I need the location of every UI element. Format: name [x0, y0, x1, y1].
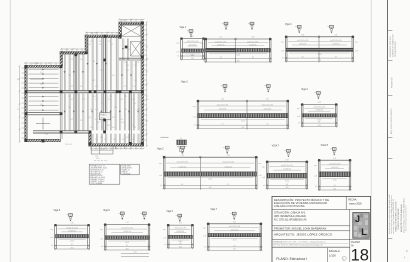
- svg-text:CTE DB-SE: CTE DB-SE: [122, 173, 131, 175]
- svg-text:4o12(2.35+0.90): 4o12(2.35+0.90): [329, 163, 341, 165]
- svg-text:Viga 3: Viga 3: [285, 24, 292, 26]
- svg-text:V-25: V-25: [137, 109, 140, 111]
- svg-text:18: 18: [351, 247, 369, 262]
- svg-text:56: 56: [302, 57, 304, 59]
- svg-text:V-25: V-25: [90, 127, 93, 129]
- svg-text:2.20: 2.20: [333, 158, 336, 160]
- svg-text:79: 79: [227, 184, 229, 186]
- PLANO Nº label: [351, 240, 360, 248]
- svg-text:4o12(2.35+0.90): 4o12(2.35+0.90): [121, 228, 133, 230]
- svg-text:V-25: V-25: [101, 103, 104, 105]
- svg-text:4o12(2.35+0.90): 4o12(2.35+0.90): [66, 227, 78, 229]
- svg-text:64: 64: [266, 124, 268, 126]
- svg-text:2o10(4.50): 2o10(4.50): [332, 44, 340, 46]
- svg-text:marzo 2020: marzo 2020: [349, 203, 362, 206]
- svg-text:V-25: V-25: [68, 107, 71, 109]
- svg-text:14: 14: [317, 93, 319, 95]
- svg-text:14: 14: [333, 149, 335, 151]
- svg-text:COLEGIO OFICIAL DE: COLEGIO OFICIAL DE: [397, 208, 400, 230]
- svg-text:Viga 6: Viga 6: [166, 211, 173, 213]
- svg-text:V-25: V-25: [133, 127, 136, 129]
- svg-text:A3: A3: [406, 250, 409, 252]
- svg-text:4.20: 4.20: [96, 158, 99, 160]
- svg-text:V-25: V-25: [99, 41, 102, 43]
- architect J L logo stamp: [353, 213, 369, 239]
- svg-text:2.95: 2.95: [65, 49, 68, 51]
- svg-text:V-25: V-25: [109, 96, 112, 98]
- escala: [329, 249, 346, 260]
- svg-text:EHE-08: EHE-08: [122, 171, 128, 173]
- svg-text:V-25: V-25: [80, 59, 83, 61]
- joists beside stair void: [122, 39, 124, 61]
- svg-text:3.99: 3.99: [227, 155, 230, 157]
- svg-text:2o10: 2o10: [241, 120, 245, 122]
- joists region upper right: [121, 61, 123, 90]
- svg-text:14: 14: [233, 213, 235, 215]
- svg-text:2.58: 2.58: [181, 155, 184, 157]
- svg-text:1/100: 1/100: [329, 253, 336, 257]
- svg-text:4o12(2.35+0.90): 4o12(2.35+0.90): [229, 226, 241, 228]
- svg-text:14: 14: [143, 213, 145, 215]
- svg-text:2o10: 2o10: [125, 242, 129, 244]
- svg-text:V-25: V-25: [70, 119, 73, 121]
- svg-text:e o8: e o8: [203, 236, 206, 238]
- title block: description text: [274, 197, 329, 208]
- wall: top of stair block: [119, 22, 144, 25]
- svg-text:V-25: V-25: [101, 80, 104, 82]
- svg-text:V-25: V-25: [113, 139, 116, 141]
- svg-text:2.52 3.01: 2.52 3.01: [65, 144, 72, 146]
- svg-text:4o12(2.35+0.90): 4o12(2.35+0.90): [262, 105, 274, 107]
- svg-text:V-25: V-25: [97, 122, 100, 124]
- beam line y91 across plan: [26, 90, 144, 92]
- svg-text:e o8: e o8: [50, 237, 53, 239]
- svg-text:FORJ.1: FORJ.1: [101, 115, 107, 117]
- svg-text:INT. EJES 70 cm: INT. EJES 70 cm: [90, 171, 103, 173]
- svg-text:14: 14: [182, 147, 184, 149]
- svg-text:4o12(2.35+0.90): 4o12(2.35+0.90): [176, 162, 188, 164]
- svg-text:ARQUITECTO: JESÚS LÓPEZ OROZCO: ARQUITECTO: JESÚS LÓPEZ OROZCO: [274, 232, 333, 237]
- svg-text:V-25: V-25: [112, 117, 115, 119]
- svg-text:2.83: 2.83: [285, 159, 288, 161]
- svg-text:4o12(2.35+0.90): 4o12(2.35+0.90): [313, 107, 325, 109]
- beam detail VIGA 6 (long, row 3): [157, 146, 262, 190]
- svg-text:4o12(2.35+0.90): 4o12(2.35+0.90): [175, 228, 187, 230]
- porch outline bottom: [91, 146, 113, 154]
- svg-text:ARQ. JESÚS LÓPEZ OROZCO: ARQ. JESÚS LÓPEZ OROZCO: [390, 108, 393, 134]
- svg-text:V-25: V-25: [108, 99, 111, 101]
- svg-text:2.80: 2.80: [122, 20, 125, 22]
- svg-text:V-25: V-25: [128, 49, 131, 51]
- svg-text:V-25: V-25: [110, 44, 113, 46]
- svg-text:V-25: V-25: [45, 134, 48, 136]
- svg-text:FECHA:: FECHA:: [348, 199, 357, 202]
- joists region upper middle: [87, 38, 89, 90]
- svg-text:e o8: e o8: [281, 50, 284, 52]
- svg-text:2o10(4.50): 2o10(4.50): [249, 44, 257, 46]
- svg-text:3.76: 3.76: [233, 221, 236, 223]
- columns (filled squares): [25, 90, 28, 93]
- joists region mid full: [64, 93, 66, 130]
- svg-text:V-25: V-25: [136, 62, 139, 64]
- wall: right perimeter: [141, 22, 144, 146]
- svg-text:4o12(2.35+0.90): 4o12(2.35+0.90): [330, 40, 342, 42]
- svg-text:Viga 8: Viga 8: [54, 210, 61, 212]
- svg-text:V-25: V-25: [101, 127, 104, 129]
- sheet outer right frame line: [387, 0, 389, 262]
- svg-text:14: 14: [287, 151, 289, 153]
- svg-text:e o8: e o8: [262, 177, 265, 179]
- svg-text:53: 53: [220, 57, 222, 59]
- svg-text:2.41: 2.41: [334, 34, 337, 36]
- beam detail VIGA 9 (row 4 left): [100, 210, 151, 257]
- svg-text:V-25: V-25: [92, 61, 95, 63]
- svg-text:e o8: e o8: [100, 238, 103, 240]
- svg-text:V-25: V-25: [93, 96, 96, 98]
- svg-text:V-25: V-25: [90, 41, 93, 43]
- svg-text:Viga 4: Viga 4: [301, 89, 308, 91]
- interior wall x116: [115, 36, 117, 91]
- svg-text:1.95: 1.95: [95, 156, 98, 158]
- beam detail VIGA 10 (row 4 middle): [163, 211, 194, 249]
- svg-text:V-25: V-25: [70, 86, 73, 88]
- svg-text:V-25: V-25: [40, 104, 43, 106]
- svg-text:V-25: V-25: [95, 86, 98, 88]
- svg-text:V-25: V-25: [134, 65, 137, 67]
- svg-text:2o10(4.50): 2o10(4.50): [189, 45, 197, 47]
- svg-text:2o10(4.50): 2o10(4.50): [331, 167, 339, 169]
- svg-text:V-25: V-25: [112, 75, 115, 77]
- porch marks right: [116, 145, 125, 147]
- wall: step left x60: [60, 52, 63, 67]
- svg-text:2o10(4.50): 2o10(4.50): [217, 44, 225, 46]
- svg-text:60: 60: [181, 184, 183, 186]
- svg-text:2o10(4.50): 2o10(4.50): [123, 231, 131, 233]
- svg-text:2o10: 2o10: [318, 54, 322, 56]
- svg-text:V-25: V-25: [92, 80, 95, 82]
- svg-text:V-25: V-25: [126, 65, 129, 67]
- svg-text:2o10: 2o10: [208, 179, 212, 181]
- notes box 1: [89, 164, 120, 185]
- svg-text:L: L: [361, 227, 367, 237]
- svg-text:1.70 2.45: 1.70 2.45: [32, 63, 39, 65]
- svg-text:2o10(4.50): 2o10(4.50): [178, 166, 186, 168]
- wall: step top y52: [60, 52, 85, 55]
- svg-text:e o8: e o8: [193, 117, 196, 119]
- svg-text:48: 48: [179, 243, 181, 245]
- svg-text:3.13: 3.13: [126, 222, 129, 224]
- svg-text:Viga 3: Viga 3: [181, 82, 188, 84]
- svg-text:ESCALA:: ESCALA:: [329, 249, 341, 253]
- wall: stair block left: [119, 22, 122, 39]
- svg-text:V-25: V-25: [131, 139, 134, 141]
- svg-text:342: 342: [191, 58, 194, 60]
- svg-text:V-25: V-25: [70, 59, 73, 61]
- svg-text:57: 57: [71, 244, 73, 246]
- svg-text:VISADO ESTATUTARIO 12/05/2020: VISADO ESTATUTARIO 12/05/2020: [395, 202, 398, 232]
- svg-text:V-25: V-25: [132, 99, 135, 101]
- sheet inner right frame line: [370, 0, 372, 262]
- svg-text:2o10(4.50): 2o10(4.50): [224, 166, 232, 168]
- svg-text:V-25: V-25: [134, 80, 137, 82]
- joists left wing lower: [29, 96, 59, 98]
- right margin: registry text top: [390, 34, 397, 57]
- bottom dimension dashes: [94, 160, 108, 162]
- svg-text:e o8: e o8: [258, 175, 261, 177]
- beam detail VIGA 8 (row 4 far left): [50, 210, 90, 250]
- svg-text:14: 14: [267, 86, 269, 88]
- svg-text:V-25: V-25: [107, 125, 110, 127]
- svg-text:V-25: V-25: [68, 75, 71, 77]
- svg-text:2o10(4.50): 2o10(4.50): [315, 110, 323, 112]
- wall: step top y36: [85, 35, 119, 38]
- svg-text:2.34: 2.34: [301, 34, 304, 36]
- svg-text:58: 58: [252, 57, 254, 59]
- svg-text:Viga 5: Viga 5: [103, 210, 110, 212]
- beam detail VIGA 1: [176, 27, 205, 61]
- svg-text:57: 57: [335, 57, 337, 59]
- svg-text:14: 14: [190, 31, 192, 33]
- svg-text:14: 14: [179, 215, 181, 217]
- svg-text:2o10(4.50): 2o10(4.50): [219, 109, 227, 111]
- stair void X upper: [122, 25, 141, 36]
- svg-text:SOBREC. 2 KN/m2: SOBREC. 2 KN/m2: [90, 181, 104, 183]
- svg-text:V-25: V-25: [108, 41, 111, 43]
- svg-text:V-25: V-25: [100, 70, 103, 72]
- notes box 2: [121, 164, 139, 175]
- svg-text:V-25: V-25: [95, 109, 98, 111]
- svg-text:V-25: V-25: [40, 84, 43, 86]
- svg-text:FECHA 12/05/2020: FECHA 12/05/2020: [394, 42, 397, 57]
- svg-text:V-25: V-25: [68, 96, 71, 98]
- svg-text:372: 372: [233, 249, 236, 251]
- svg-text:V-25: V-25: [121, 122, 124, 124]
- beam detail VIGA 8 (row 3 right): [314, 144, 352, 191]
- svg-text:J: J: [355, 214, 360, 224]
- svg-text:V-25: V-25: [120, 119, 123, 121]
- svg-text:V-25: V-25: [88, 44, 91, 46]
- svg-text:e o8: e o8: [200, 51, 203, 53]
- svg-text:V-25: V-25: [80, 120, 83, 122]
- svg-text:5.4: 5.4: [146, 99, 148, 101]
- svg-text:412: 412: [209, 187, 212, 189]
- svg-text:2o10(4.50): 2o10(4.50): [177, 231, 185, 233]
- title block frame: [272, 196, 371, 262]
- svg-text:14: 14: [331, 27, 333, 29]
- svg-text:76: 76: [234, 245, 236, 247]
- interior wall x60: [59, 66, 61, 139]
- svg-text:V-25: V-25: [122, 139, 125, 141]
- svg-text:V-25: V-25: [82, 99, 85, 101]
- svg-text:353: 353: [71, 247, 74, 249]
- plan outer dimension lines: [119, 19, 144, 21]
- svg-text:V-25: V-25: [124, 109, 127, 111]
- right margin segment ticks: [388, 30, 393, 32]
- svg-text:2o10(4.50): 2o10(4.50): [264, 109, 272, 111]
- beam detail VIGA 7 (row 3 middle): [262, 144, 308, 190]
- svg-text:54: 54: [334, 185, 336, 187]
- svg-text:14: 14: [224, 86, 226, 88]
- svg-text:V-25: V-25: [70, 99, 73, 101]
- floor plan: structural slab plan: [17, 19, 148, 161]
- svg-text:2.43: 2.43: [318, 102, 321, 104]
- svg-text:2o10: 2o10: [333, 179, 337, 181]
- svg-text:14: 14: [70, 215, 72, 217]
- svg-text:344: 344: [179, 246, 182, 248]
- svg-text:2o10: 2o10: [285, 181, 289, 183]
- svg-text:V-25: V-25: [133, 103, 136, 105]
- wall: step bottom x88: [89, 133, 92, 144]
- svg-text:25: 25: [180, 138, 182, 140]
- axis cross lower-left room: [36, 123, 50, 125]
- joists region bottom: [91, 134, 93, 144]
- svg-text:e o8: e o8: [176, 51, 179, 53]
- svg-text:V-25: V-25: [40, 72, 43, 74]
- svg-text:V-25: V-25: [88, 117, 91, 119]
- interior beam x130: [129, 93, 131, 144]
- svg-text:2.91: 2.91: [266, 99, 269, 101]
- svg-text:63: 63: [286, 184, 288, 186]
- svg-text:4o12(2.35+0.90): 4o12(2.35+0.90): [187, 41, 199, 43]
- svg-text:2o10: 2o10: [236, 55, 240, 57]
- svg-text:e o8: e o8: [163, 237, 166, 239]
- svg-text:46: 46: [192, 54, 194, 56]
- svg-text:359: 359: [286, 187, 289, 189]
- beam detail VIGA 5 (row 2 right): [297, 89, 338, 128]
- svg-text:2.36: 2.36: [70, 223, 73, 225]
- axis cross left wing: [30, 78, 44, 80]
- svg-text:2.12: 2.12: [219, 37, 222, 39]
- wall: step left x85: [85, 35, 88, 54]
- svg-text:Viga 7: Viga 7: [210, 209, 217, 211]
- svg-text:e o8: e o8: [297, 116, 300, 118]
- svg-text:2o10(4.50): 2o10(4.50): [299, 44, 307, 46]
- sheet left margin line: [9, 0, 11, 262]
- beam line y131 bottom left: [33, 130, 91, 132]
- svg-text:363: 363: [126, 248, 129, 250]
- svg-text:PROMOTOR: PROMOTOR: [391, 77, 393, 88]
- stair void X lower: [131, 42, 141, 57]
- svg-text:2.25: 2.25: [133, 252, 136, 254]
- svg-text:2o10(4.50): 2o10(4.50): [68, 230, 76, 232]
- svg-text:V-25: V-25: [99, 44, 102, 46]
- svg-text:e o8: e o8: [314, 176, 317, 178]
- beam line y113 left wing: [26, 112, 61, 114]
- svg-text:2.9: 2.9: [17, 109, 19, 111]
- joists region upper mid-left: [64, 55, 66, 91]
- svg-text:V-25: V-25: [100, 137, 103, 139]
- svg-text:2.48: 2.48: [251, 37, 254, 39]
- svg-text:67: 67: [126, 245, 128, 247]
- svg-text:4o12(2.35+0.90): 4o12(2.35+0.90): [281, 165, 293, 167]
- svg-text:4o12(2.35+0.90): 4o12(2.35+0.90): [222, 162, 234, 164]
- svg-text:2.1: 2.1: [146, 59, 148, 61]
- beam detail VIGA 2: [200, 22, 271, 63]
- svg-text:386: 386: [318, 60, 321, 62]
- svg-text:V-25: V-25: [124, 62, 127, 64]
- svg-text:4o12(2.35+0.90): 4o12(2.35+0.90): [215, 41, 227, 43]
- wall: bottom left: [25, 139, 61, 142]
- beam detail VIGA 11 (row 4 right): [203, 209, 263, 251]
- tiny leader right of plan: [161, 136, 169, 138]
- beam detail VIGA 4 (long, row 2): [181, 82, 289, 130]
- svg-text:V-25: V-25: [95, 119, 98, 121]
- wall: left perimeter: [25, 65, 28, 141]
- joists left wing horizontal: [29, 69, 59, 71]
- svg-text:2o10: 2o10: [233, 239, 237, 241]
- svg-text:PLANO: PLANO: [351, 240, 360, 244]
- svg-text:V-25: V-25: [114, 107, 117, 109]
- svg-text:V-25: V-25: [112, 127, 115, 129]
- svg-text:R.C. DTE-311-UP268E0001-AA: R.C. DTE-311-UP268E0001-AA: [274, 219, 307, 222]
- wall: left wing top: [25, 65, 60, 68]
- svg-text:14: 14: [298, 27, 300, 29]
- svg-text:14: 14: [251, 23, 253, 25]
- svg-text:354: 354: [318, 125, 321, 127]
- svg-text:4o12(2.35+0.90): 4o12(2.35+0.90): [217, 105, 229, 107]
- svg-text:58: 58: [318, 122, 320, 124]
- svg-text:3.50: 3.50: [221, 99, 224, 101]
- svg-text:14: 14: [121, 213, 123, 215]
- svg-text:14: 14: [225, 23, 227, 25]
- svg-text:2o10: 2o10: [70, 241, 74, 243]
- title block: fecha: [348, 199, 362, 206]
- svg-text:V-25: V-25: [118, 59, 121, 61]
- svg-text:384: 384: [237, 60, 240, 62]
- svg-text:www.coamalaga.es CSV: 9F2K1-: www.coamalaga.es CSV: 9F2K1-88A2C-11D4: [402, 198, 405, 233]
- svg-text:e o8: e o8: [159, 175, 162, 177]
- svg-text:V-25: V-25: [131, 125, 134, 127]
- svg-text:e o8: e o8: [355, 50, 358, 52]
- title block: contact small print: [273, 241, 349, 247]
- svg-text:14: 14: [226, 147, 228, 149]
- svg-text:V-25: V-25: [80, 86, 83, 88]
- svg-text:3.05 2.50: 3.05 2.50: [90, 33, 97, 35]
- svg-text:4o12(2.35+0.90): 4o12(2.35+0.90): [297, 40, 309, 42]
- svg-text:3.2: 3.2: [17, 79, 19, 81]
- svg-text:2o10(4.50): 2o10(4.50): [231, 229, 239, 231]
- svg-text:V-25: V-25: [133, 86, 136, 88]
- svg-text:Viga 1: Viga 1: [180, 27, 187, 29]
- svg-text:1.73: 1.73: [179, 223, 182, 225]
- svg-text:ARQUITECTOS DE MÁLAGA: ARQUITECTOS DE MÁLAGA: [400, 204, 403, 232]
- svg-text:409: 409: [241, 127, 244, 129]
- svg-text:Viga 2: Viga 2: [157, 149, 164, 151]
- svg-text:VIGA 8: VIGA 8: [321, 144, 329, 147]
- escala stamp squiggle: [342, 256, 346, 260]
- beam detail VIGA 3: [281, 24, 359, 63]
- svg-text:350: 350: [333, 188, 336, 190]
- mini beam section detail (right of plan): [177, 138, 187, 153]
- svg-text:V-25: V-25: [95, 139, 98, 141]
- svg-text:PLANO: Estructura I: PLANO: Estructura I: [276, 257, 307, 261]
- svg-text:V-25: V-25: [126, 70, 129, 72]
- svg-text:PROMOTOR: MIGUEL JOHN BARBARA: PROMOTOR: MIGUEL JOHN BARBARAN: [274, 226, 326, 230]
- svg-text:73: 73: [222, 124, 224, 126]
- svg-text:1.57: 1.57: [191, 36, 194, 38]
- svg-text:VIGA 7: VIGA 7: [272, 144, 280, 147]
- right margin: visado stamp block: [388, 195, 407, 234]
- svg-text:4o12(2.35+0.90): 4o12(2.35+0.90): [247, 41, 259, 43]
- center label box: [100, 113, 111, 120]
- svg-text:V-25: V-25: [95, 99, 98, 101]
- title block: situacion: [274, 209, 307, 221]
- interior beam x104: [103, 36, 105, 131]
- svg-text:V-25: V-25: [126, 137, 129, 139]
- svg-text:V-25: V-25: [124, 86, 127, 88]
- svg-text:V-25: V-25: [120, 99, 123, 101]
- svg-text:V-25: V-25: [124, 96, 127, 98]
